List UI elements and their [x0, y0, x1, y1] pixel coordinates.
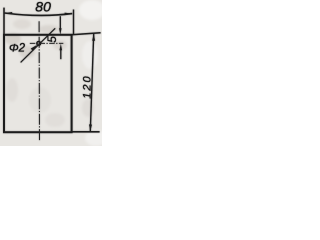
main drawing — [4, 0, 101, 142]
scan halo underlay — [4, 0, 101, 142]
scan noise blobs — [5, 0, 107, 146]
